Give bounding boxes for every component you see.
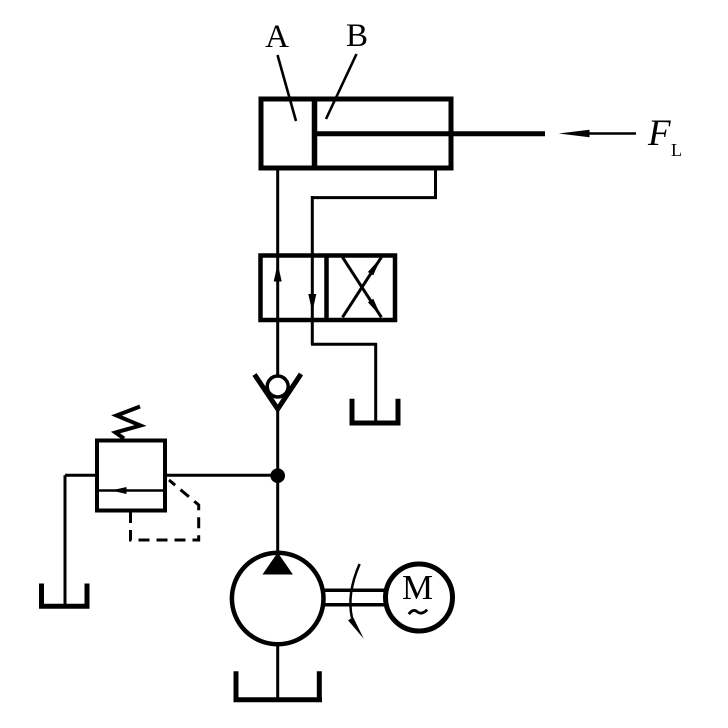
svg-text:L: L — [671, 140, 682, 160]
svg-text:A: A — [265, 19, 289, 55]
rotation arrowhead — [348, 617, 364, 639]
wire relief valve outlet — [65, 474, 99, 477]
leader line B — [326, 54, 357, 119]
force arrowhead — [559, 130, 590, 137]
wire port B vertical from cylinder — [434, 168, 437, 199]
valve crossed arrow 1 — [343, 257, 382, 317]
valve crossed arrowhead 2 — [368, 257, 382, 276]
wire valve drain down — [374, 343, 377, 422]
motor label tilde — [409, 610, 427, 614]
valve crossed arrow 2 — [343, 257, 382, 317]
directional valve body — [261, 256, 396, 321]
wire port B horizontal jog — [311, 196, 437, 199]
relief valve internal line — [99, 489, 164, 492]
tank valve drain — [350, 399, 401, 423]
pump circle — [232, 553, 324, 645]
svg-text:M: M — [402, 568, 433, 607]
valve crossed arrowhead 1 — [368, 299, 382, 318]
wire port A vertical — [276, 168, 279, 375]
wire pump suction — [276, 644, 279, 698]
wire port B down to valve — [311, 196, 314, 345]
check valve seat — [255, 374, 302, 409]
wire pump to junction to check valve — [276, 409, 279, 553]
pump outlet triangle — [263, 553, 293, 575]
motor shaft lower line — [322, 603, 386, 607]
wire relief valve inlet — [164, 474, 278, 477]
junction node — [270, 468, 285, 483]
motor circle — [386, 564, 453, 631]
wire valve drain horizontal — [311, 343, 377, 346]
force arrow line — [586, 132, 636, 135]
wire relief valve drain down — [64, 475, 67, 605]
relief valve spring — [116, 407, 141, 439]
cylinder piston rod — [314, 131, 545, 136]
check valve circle — [267, 376, 288, 397]
leader line A — [278, 55, 297, 121]
svg-text:B: B — [346, 18, 368, 54]
tank pump suction — [234, 671, 323, 700]
relief valve pilot dashed line — [131, 480, 199, 540]
motor shaft upper line — [322, 589, 386, 593]
cylinder body — [261, 99, 451, 168]
svg-text:F: F — [647, 113, 671, 154]
relief valve internal arrowhead — [111, 487, 127, 494]
valve up arrowhead — [274, 264, 282, 282]
tank relief drain — [39, 584, 90, 607]
relief valve body — [97, 441, 165, 511]
cylinder piston — [312, 97, 318, 170]
rotation arrow arc — [350, 564, 359, 618]
directional valve divider — [324, 254, 329, 321]
valve down arrowhead — [308, 294, 316, 312]
